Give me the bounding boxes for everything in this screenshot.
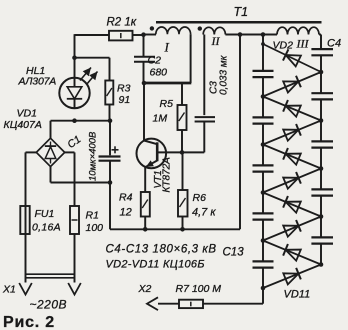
svg-text:VD11: VD11 bbox=[284, 289, 311, 301]
svg-text:R2 1к: R2 1к bbox=[107, 17, 137, 29]
svg-text:C4: C4 bbox=[327, 38, 341, 50]
svg-text:10мк×400В: 10мк×400В bbox=[88, 131, 99, 181]
svg-text:III: III bbox=[296, 37, 310, 51]
svg-text:C2: C2 bbox=[148, 55, 162, 67]
svg-text:1М: 1М bbox=[153, 113, 168, 125]
svg-text:91: 91 bbox=[119, 94, 131, 106]
svg-text:680: 680 bbox=[150, 67, 168, 79]
svg-text:12: 12 bbox=[120, 207, 132, 219]
svg-text:100: 100 bbox=[86, 222, 104, 234]
svg-text:R3: R3 bbox=[117, 83, 131, 95]
svg-text:R1: R1 bbox=[86, 210, 99, 222]
svg-text:R4: R4 bbox=[119, 192, 133, 204]
svg-text:X2: X2 bbox=[138, 283, 152, 295]
svg-text:Рис. 2: Рис. 2 bbox=[3, 314, 55, 330]
svg-text:АЛ307А: АЛ307А bbox=[18, 76, 57, 88]
svg-text:4,7 к: 4,7 к bbox=[192, 207, 216, 219]
svg-text:R5: R5 bbox=[160, 98, 174, 110]
svg-text:C13: C13 bbox=[223, 247, 245, 259]
svg-text:КТ872А: КТ872А bbox=[162, 157, 173, 193]
svg-text:0,16А: 0,16А bbox=[32, 222, 61, 234]
svg-text:VD1: VD1 bbox=[17, 108, 37, 120]
svg-text:I: I bbox=[164, 40, 170, 55]
svg-text:II: II bbox=[211, 34, 221, 48]
svg-text:X1: X1 bbox=[2, 284, 16, 296]
svg-text:0,033 мк: 0,033 мк bbox=[219, 54, 230, 95]
svg-text:~220В: ~220В bbox=[30, 298, 68, 312]
svg-text:С4-С13 180×6,3 кВ: С4-С13 180×6,3 кВ bbox=[106, 244, 217, 256]
svg-text:R7 100 М: R7 100 М bbox=[176, 283, 222, 295]
svg-text:FU1: FU1 bbox=[35, 208, 55, 220]
svg-text:VD2-VD11 КЦ106Б: VD2-VD11 КЦ106Б bbox=[106, 259, 205, 271]
svg-text:КЦ407А: КЦ407А bbox=[4, 119, 42, 131]
svg-text:Т1: Т1 bbox=[234, 5, 249, 19]
svg-text:C1: C1 bbox=[65, 133, 83, 151]
svg-text:R6: R6 bbox=[193, 192, 207, 204]
